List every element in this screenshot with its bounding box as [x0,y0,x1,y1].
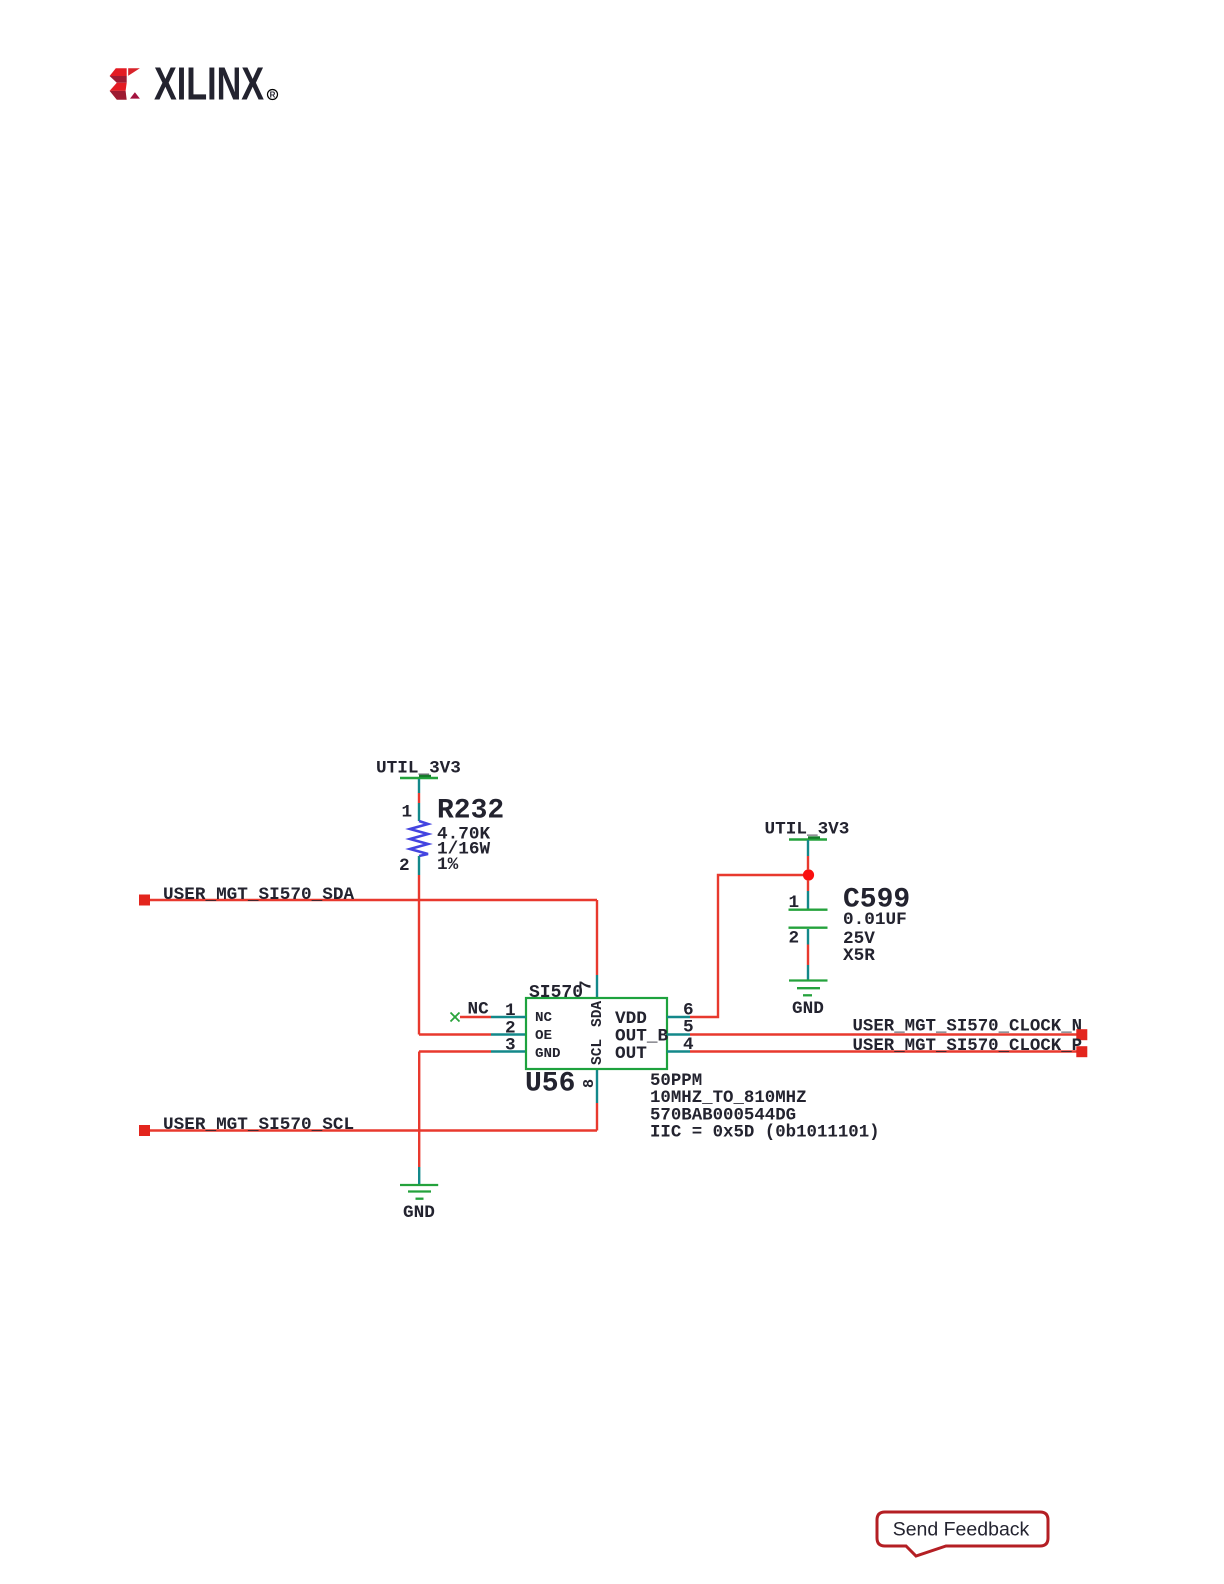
svg-text:NC: NC [535,1010,553,1026]
pin name OUT_B [615,1027,668,1047]
svg-text:USER_MGT_SI570_CLOCK_N: USER_MGT_SI570_CLOCK_N [853,1018,1083,1037]
svg-text:8: 8 [581,1079,598,1088]
reference designator U56 [525,1068,575,1099]
wire OE pin 2 [419,1033,526,1035]
Xilinx logo glyph [110,68,140,100]
net label USER_MGT_SI570_CLOCK_N [853,1018,1083,1037]
value label 25V [843,929,875,949]
svg-text:1%: 1% [437,855,459,875]
value label 0.01UF [843,910,907,930]
svg-text:7: 7 [578,980,597,990]
wire OUT pin 4 [667,1050,1078,1052]
svg-text:1: 1 [789,893,800,913]
value label 570BAB000544DG [650,1107,796,1126]
wire SDA down to pin 7 [596,900,598,998]
svg-text:2: 2 [399,856,410,876]
wire VDD pin 6 to junction [667,875,803,1017]
pin number 1 of U56 [505,1001,516,1021]
pin number 4 of U56 [683,1035,694,1055]
reference designator R232 [437,795,504,826]
wire SCL up to pin 8 [596,1069,598,1131]
svg-text:XILINX: XILINX [154,58,264,110]
svg-text:GND: GND [403,1203,435,1223]
svg-text:USER_MGT_SI570_CLOCK_P: USER_MGT_SI570_CLOCK_P [853,1037,1083,1056]
svg-text:1: 1 [402,803,413,823]
wire R232 down to OE corner [418,875,420,1035]
pin number 6 of U56 [683,1000,694,1020]
ground label GND (right) [792,999,824,1019]
power symbol UTIL_3V3 (left) [376,759,461,794]
svg-text:10MHZ_TO_810MHZ: 10MHZ_TO_810MHZ [650,1089,807,1108]
ground label GND (bottom) [403,1203,435,1223]
svg-text:U56: U56 [525,1068,575,1099]
svg-text:USER_MGT_SI570_SCL: USER_MGT_SI570_SCL [163,1115,354,1135]
svg-text:SCL: SCL [590,1039,606,1065]
svg-text:USER_MGT_SI570_SDA: USER_MGT_SI570_SDA [163,885,354,905]
pin name NC [535,1010,553,1026]
svg-text:R: R [270,91,276,100]
Xilinx wordmark XILINX [154,58,278,110]
pin name VDD [615,1009,647,1029]
svg-text:OE: OE [535,1028,552,1044]
wire power to R232 [418,793,420,803]
pin number 8 [581,1079,598,1088]
ground (bottom) [400,1185,438,1199]
pin name OUT [615,1044,647,1064]
reference designator C599 [843,884,910,915]
node USER_MGT_SI570_SCL port square [139,1125,150,1136]
value label 1% [437,855,459,875]
pin name SCL [590,1039,606,1065]
net label USER_MGT_SI570_CLOCK_P [853,1037,1083,1056]
svg-text:SDA: SDA [590,1001,606,1027]
net label USER_MGT_SI570_SCL [163,1115,354,1135]
node USER_MGT_SI570_SDA port square [139,895,150,906]
pin number 2 of U56 [505,1019,516,1039]
IC U56 SI570 body [526,998,667,1069]
value label 10MHZ_TO_810MHZ [650,1089,807,1108]
svg-text:IIC = 0x5D (0b1011101): IIC = 0x5D (0b1011101) [650,1124,880,1143]
Send Feedback button [877,1512,1048,1556]
no-connect marker pin 1 [451,1013,460,1022]
value label 1/16W [437,840,490,860]
wire junction to C599 [807,880,809,910]
svg-text:UTIL_3V3: UTIL_3V3 [765,820,850,840]
svg-text:2: 2 [789,929,800,949]
pin number 7 [578,980,597,990]
wire NC pin 1 [460,1016,526,1018]
part name SI570 [529,983,583,1003]
pin number 1 of R232 [402,803,413,823]
wire SCL horizontal [150,1129,597,1131]
value label 4.70K [437,825,490,845]
wire GND pin 3 down to ground [419,1052,526,1185]
svg-text:GND: GND [792,999,824,1019]
svg-text:GND: GND [535,1046,561,1062]
svg-text:0.01UF: 0.01UF [843,910,907,930]
pin name SDA [590,1001,606,1027]
pin number 3 of U56 [505,1035,516,1055]
capacitor C599 [789,910,828,945]
pin name OE [535,1028,552,1044]
svg-text:Send Feedback: Send Feedback [893,1519,1030,1541]
pin number 2 of R232 [399,856,410,876]
node USER_MGT_SI570_CLOCK_N port square [1076,1029,1087,1040]
junction dot [803,869,814,880]
label NC [468,1000,490,1020]
svg-text:3: 3 [505,1035,516,1055]
node USER_MGT_SI570_CLOCK_P port square [1076,1046,1087,1057]
pin number 1 of C599 [789,893,800,913]
resistor R232 [410,803,428,875]
value label X5R [843,946,875,966]
wire OUT_B pin 5 [667,1033,1078,1035]
value label 50PPM [650,1072,702,1091]
net label USER_MGT_SI570_SDA [163,885,354,905]
svg-text:OUT: OUT [615,1044,647,1064]
wire C599 to ground [807,945,809,981]
power symbol UTIL_3V3 (right) [765,820,850,871]
svg-text:X5R: X5R [843,946,875,966]
pin name GND [535,1046,561,1062]
wire SDA horizontal [150,899,597,901]
svg-text:R232: R232 [437,795,504,826]
value label IIC address [650,1124,880,1143]
svg-text:SI570: SI570 [529,983,583,1003]
svg-text:UTIL_3V3: UTIL_3V3 [376,759,461,779]
pin number 5 of U56 [683,1018,694,1038]
ground (right) [789,981,828,996]
pin number 2 of C599 [789,929,800,949]
